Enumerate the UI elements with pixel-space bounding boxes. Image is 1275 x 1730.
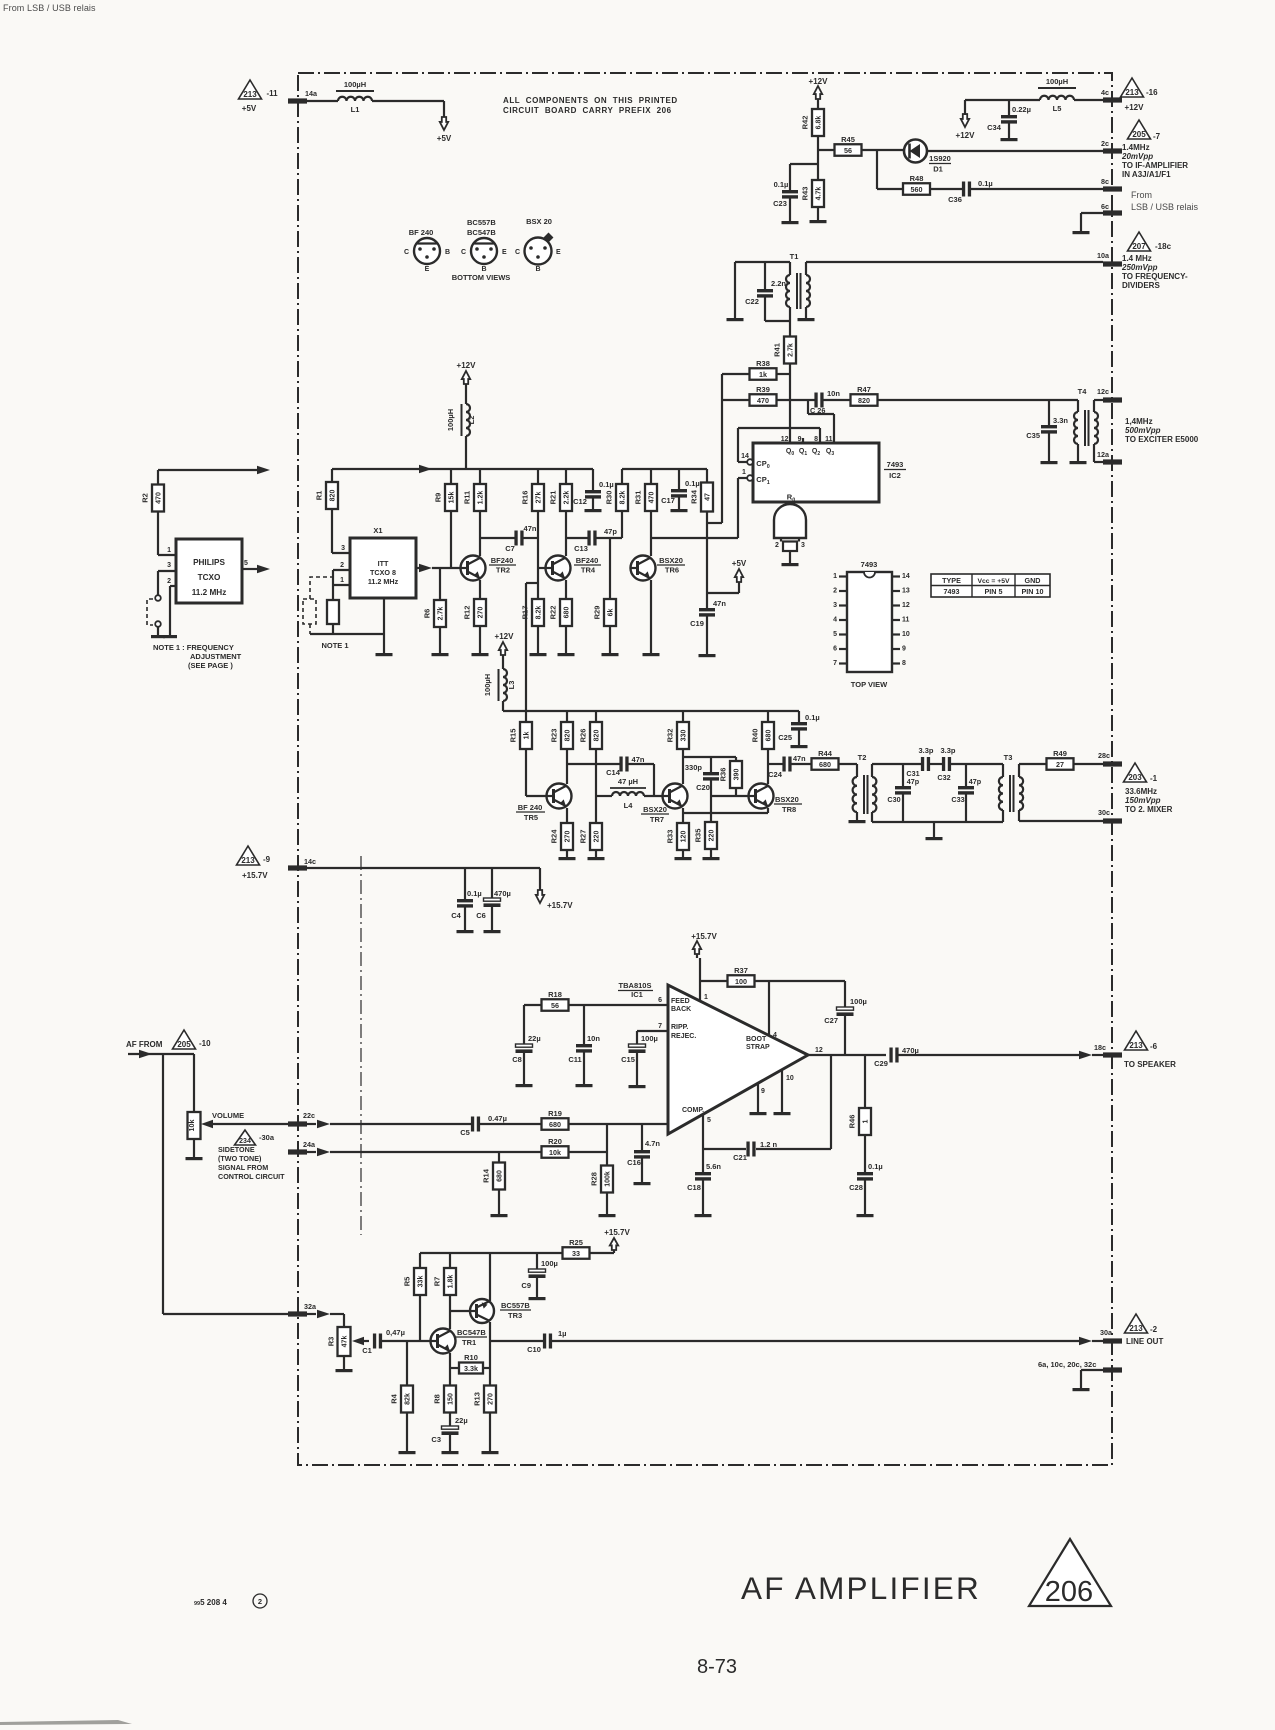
capacitor C30 47p xyxy=(902,764,904,786)
svg-text:213: 213 xyxy=(1125,88,1139,97)
svg-text:FEED: FEED xyxy=(671,998,690,1005)
svg-text:+12V: +12V xyxy=(956,131,976,140)
svg-text:IN A3J/A1/F1: IN A3J/A1/F1 xyxy=(1122,170,1171,179)
svg-text:330p: 330p xyxy=(685,763,703,772)
svg-text:680: 680 xyxy=(564,607,571,619)
resistor R6 2.7k xyxy=(439,568,441,600)
CP0 feedback loop wire pin8 to pin14 xyxy=(819,428,821,443)
filter bottom rail with center ground xyxy=(872,821,1003,823)
pin 10a xyxy=(1103,261,1122,266)
svg-text:27: 27 xyxy=(1056,760,1064,769)
svg-text:2.7k: 2.7k xyxy=(438,607,445,621)
resistor R13 270 xyxy=(489,1341,491,1385)
pin 12a xyxy=(1103,459,1122,464)
svg-text:6: 6 xyxy=(833,646,837,653)
svg-text:ALL COMPONENTS ON THIS PRI: ALL COMPONENTS ON THIS PRINTED xyxy=(503,96,678,105)
capacitor C26 10n (series) xyxy=(814,393,817,408)
svg-text:28c: 28c xyxy=(1098,751,1110,760)
svg-text:C15: C15 xyxy=(621,1055,635,1064)
pin 7 ripple rejection with C15 100u xyxy=(637,1030,667,1032)
pin 8c xyxy=(1103,186,1122,191)
resistor R35 220 xyxy=(710,813,712,822)
arrow to pin 18c xyxy=(1079,1051,1092,1059)
svg-text:+15.7V: +15.7V xyxy=(691,932,717,941)
capacitor C5 0.47u (series) xyxy=(471,1117,474,1132)
TCXO pin 2 to ground xyxy=(170,585,176,587)
capacitor C33 47p xyxy=(965,764,967,786)
svg-text:X1: X1 xyxy=(373,526,382,535)
wire T4 secondary to pin 12a xyxy=(1094,461,1103,463)
svg-text:TR3: TR3 xyxy=(508,1311,522,1320)
resistor R15 1k xyxy=(525,711,527,722)
capacitor C17 0.1u with ground xyxy=(678,469,680,489)
svg-text:680: 680 xyxy=(766,730,773,742)
svg-text:1: 1 xyxy=(167,547,171,554)
wire down to 32a net xyxy=(162,1054,164,1314)
svg-text:820: 820 xyxy=(858,396,870,405)
svg-text:4.7k: 4.7k xyxy=(816,187,823,201)
svg-text:C36: C36 xyxy=(948,195,962,204)
capacitor C24 47n (series) xyxy=(768,763,783,765)
svg-text:+12V: +12V xyxy=(809,77,829,86)
TR8 base wire xyxy=(711,795,749,797)
svg-text:TR1: TR1 xyxy=(462,1338,476,1347)
svg-text:22µ: 22µ xyxy=(528,1034,541,1043)
R3 wiper arrow from C1 xyxy=(352,1337,364,1345)
wire +12V arrow to C34 node to L5 xyxy=(965,99,1040,101)
wire R45 to D1 node xyxy=(861,149,904,151)
svg-text:R20: R20 xyxy=(548,1137,562,1146)
capacitor C13 47p (series) xyxy=(566,537,588,539)
svg-text:250mVpp: 250mVpp xyxy=(1121,263,1158,272)
svg-text:1: 1 xyxy=(863,1119,870,1123)
svg-text:C10: C10 xyxy=(527,1345,541,1354)
svg-text:L4: L4 xyxy=(624,801,634,810)
svg-text:BOTTOM VIEWS: BOTTOM VIEWS xyxy=(452,273,511,282)
svg-text:SIDETONE: SIDETONE xyxy=(218,1145,255,1154)
svg-text:+5V: +5V xyxy=(242,104,257,113)
pin 30a xyxy=(1103,1338,1122,1343)
svg-text:47: 47 xyxy=(705,493,712,501)
capacitor C21 1.2n (series) xyxy=(746,1142,749,1157)
capacitor C8 22u (elco) xyxy=(523,1005,525,1044)
svg-text:R30: R30 xyxy=(605,491,614,505)
svg-text:R35: R35 xyxy=(694,829,703,843)
transistor TR3 BC557B (PNP) xyxy=(470,1299,494,1323)
resistor R23 820 xyxy=(566,711,568,722)
resistor R14 680 xyxy=(498,1152,500,1162)
capacitor C32 3.3p (series) xyxy=(930,763,943,765)
svg-text:B: B xyxy=(535,266,540,273)
ground below R4 xyxy=(399,1451,416,1454)
svg-text:R25: R25 xyxy=(569,1238,583,1247)
svg-text:8-73: 8-73 xyxy=(697,1656,737,1678)
wire C26 node to IC2 pin 11 xyxy=(807,400,809,414)
svg-text:27k: 27k xyxy=(536,492,543,504)
transistor TR4 BF240 xyxy=(546,556,571,581)
svg-text:STRAP: STRAP xyxy=(746,1044,770,1051)
transistor TR5 BF240 xyxy=(547,784,572,809)
svg-text:LINE OUT: LINE OUT xyxy=(1126,1337,1163,1346)
resistor R8 150 xyxy=(444,1386,456,1413)
svg-text:ADJUSTMENT: ADJUSTMENT xyxy=(190,652,242,661)
+15.7V supply arrow (down) xyxy=(536,890,544,903)
svg-text:203: 203 xyxy=(1128,773,1142,782)
resistor R30 8.2k xyxy=(621,469,623,484)
svg-text:0.1µ: 0.1µ xyxy=(685,479,700,488)
svg-text:22µ: 22µ xyxy=(455,1416,468,1425)
svg-text:0.1µ: 0.1µ xyxy=(599,480,614,489)
svg-text:LSB / USB relais: LSB / USB relais xyxy=(1131,202,1199,212)
svg-text:820: 820 xyxy=(330,490,337,502)
TR1 emitter to R8 xyxy=(449,1353,451,1385)
svg-text:R39: R39 xyxy=(756,385,770,394)
svg-text:L2: L2 xyxy=(467,416,476,425)
svg-text:PHILIPS: PHILIPS xyxy=(193,558,225,567)
capacitor C28 0.1u xyxy=(857,1172,873,1175)
svg-text:1: 1 xyxy=(742,469,746,476)
svg-text:1S920: 1S920 xyxy=(929,154,951,163)
svg-text:From LSB / USB relais: From LSB / USB relais xyxy=(3,3,96,13)
ground below R14 xyxy=(491,1214,508,1217)
svg-text:33: 33 xyxy=(572,1249,580,1258)
ground below T4 primary xyxy=(1070,461,1087,464)
capacitor C9 100u (elco) xyxy=(536,1253,538,1269)
IC2 pin 9 stub Q1 xyxy=(802,438,804,443)
svg-text:R18: R18 xyxy=(548,990,562,999)
svg-text:3.3p: 3.3p xyxy=(940,746,955,755)
svg-text:4: 4 xyxy=(833,617,837,624)
wire pin1 node to R37 xyxy=(700,980,728,982)
+12V rail segment TR6 xyxy=(622,468,707,470)
supply rail 15.7V lineout xyxy=(420,1252,562,1254)
svg-text:3: 3 xyxy=(167,562,171,569)
svg-text:R3: R3 xyxy=(327,1337,336,1347)
svg-text:5: 5 xyxy=(707,1117,711,1124)
svg-text:-6: -6 xyxy=(1150,1042,1158,1051)
svg-text:47n: 47n xyxy=(713,599,726,608)
svg-text:R34: R34 xyxy=(690,489,699,504)
resistor R17 8.2k xyxy=(537,568,539,599)
svg-text:1,4MHz: 1,4MHz xyxy=(1125,417,1153,426)
svg-text:390: 390 xyxy=(734,769,741,781)
TR3 emitter to supply rail xyxy=(489,1253,491,1301)
svg-text:R43: R43 xyxy=(801,187,810,201)
connector triangle 213 -2 line out xyxy=(1125,1314,1148,1333)
svg-text:BC547B: BC547B xyxy=(457,1328,486,1337)
svg-text:2.7k: 2.7k xyxy=(788,343,795,357)
svg-text:1.2 n: 1.2 n xyxy=(760,1140,778,1149)
svg-text:E: E xyxy=(425,266,430,273)
wire D1 to pin 2c xyxy=(927,150,1103,152)
TR3 collector to output line xyxy=(489,1322,491,1341)
wire T3 secondary to pin 30c xyxy=(1019,820,1103,822)
wire C36 to pin 8c xyxy=(971,188,1103,190)
svg-text:234: 234 xyxy=(239,1138,251,1145)
svg-text:470µ: 470µ xyxy=(902,1046,919,1055)
svg-text:207: 207 xyxy=(1132,242,1146,251)
svg-text:BC557B: BC557B xyxy=(501,1301,530,1310)
svg-text:R29: R29 xyxy=(593,606,602,620)
svg-text:1k: 1k xyxy=(524,732,531,740)
svg-text:47p: 47p xyxy=(907,777,920,786)
sidetone triangle 234 -30a xyxy=(235,1130,256,1145)
svg-text:220: 220 xyxy=(594,831,601,843)
svg-text:10k: 10k xyxy=(549,1148,561,1157)
transistor TR7 BSX20 xyxy=(663,784,688,809)
svg-text:8c: 8c xyxy=(1101,177,1109,186)
transistor TR6 BSX20 xyxy=(631,556,656,581)
svg-text:T1: T1 xyxy=(790,252,799,261)
svg-text:C23: C23 xyxy=(773,199,787,208)
svg-text:11: 11 xyxy=(825,436,833,443)
TCXO pin 3 to trimmer xyxy=(158,570,176,572)
wire T3 to R49 xyxy=(1019,763,1047,765)
svg-text:6: 6 xyxy=(658,997,662,1004)
resistor R43 4.7k xyxy=(812,180,824,207)
+12V supply arrow (down) near C34 xyxy=(961,114,969,127)
svg-text:Vcc = +5V: Vcc = +5V xyxy=(977,578,1010,585)
svg-text:-30a: -30a xyxy=(259,1133,275,1142)
svg-text:C11: C11 xyxy=(568,1055,581,1064)
ground below R0 gate xyxy=(782,563,799,566)
ground below C3 xyxy=(442,1451,459,1454)
lower +12V rail xyxy=(503,710,799,712)
svg-text:R19: R19 xyxy=(548,1109,562,1118)
pin 4 bootstrap wire xyxy=(768,981,770,1035)
svg-text:TBA810S: TBA810S xyxy=(619,981,652,990)
IC2 7493 counter box xyxy=(753,443,879,502)
svg-text:E: E xyxy=(556,249,561,256)
svg-text:56: 56 xyxy=(551,1001,559,1010)
pin 5 comp xyxy=(702,1114,704,1149)
pin 14c xyxy=(288,865,307,870)
svg-text:100µ: 100µ xyxy=(641,1034,658,1043)
ground below C23 xyxy=(782,221,799,224)
svg-text:14a: 14a xyxy=(305,89,318,98)
connector triangle 203 -1 to 2.mixer xyxy=(1124,763,1147,782)
svg-text:22c: 22c xyxy=(303,1111,315,1120)
CP1 input wire from TR6 collector xyxy=(651,537,738,539)
svg-text:R44: R44 xyxy=(818,749,833,758)
svg-text:R28: R28 xyxy=(590,1172,599,1186)
svg-text:10n: 10n xyxy=(827,389,840,398)
svg-text:(TWO TONE): (TWO TONE) xyxy=(218,1154,262,1163)
svg-text:R22: R22 xyxy=(549,606,558,620)
svg-text:9: 9 xyxy=(761,1088,765,1095)
svg-text:C1: C1 xyxy=(362,1346,372,1355)
capacitor C3 22u (elco) xyxy=(442,1426,459,1429)
pin 24a xyxy=(288,1149,307,1154)
resistor R1 820 xyxy=(331,469,333,482)
resistor R27 220 xyxy=(595,796,597,823)
svg-text:+15.7V: +15.7V xyxy=(242,871,268,880)
wire R42 to node xyxy=(817,135,819,180)
svg-text:2.2n: 2.2n xyxy=(771,279,786,288)
svg-text:150: 150 xyxy=(448,1393,455,1405)
svg-text:20mVpp: 20mVpp xyxy=(1121,152,1153,161)
svg-text:8.2k: 8.2k xyxy=(620,491,627,505)
wire R15 to TR5 base xyxy=(526,795,547,797)
resistor R39 470 xyxy=(722,399,749,401)
resistor R46 1 xyxy=(864,1055,866,1108)
svg-text:C24: C24 xyxy=(768,770,783,779)
TR5 emitter to R24 xyxy=(566,808,568,823)
svg-text:10: 10 xyxy=(786,1075,794,1082)
ground below R3 xyxy=(336,1369,353,1372)
svg-text:15k: 15k xyxy=(449,492,456,504)
svg-text:1.4MHz: 1.4MHz xyxy=(1122,143,1150,152)
svg-text:3: 3 xyxy=(341,545,345,552)
wire L1 to +5V arrow xyxy=(372,100,444,102)
svg-text:L5: L5 xyxy=(1053,104,1062,113)
svg-text:470: 470 xyxy=(156,492,163,504)
svg-text:4.7n: 4.7n xyxy=(645,1139,660,1148)
wire down to volume pot xyxy=(193,1054,195,1112)
svg-text:+12V: +12V xyxy=(1125,103,1145,112)
svg-text:0.1µ: 0.1µ xyxy=(467,889,482,898)
svg-text:4: 4 xyxy=(773,1032,777,1039)
svg-text:+15.7V: +15.7V xyxy=(604,1228,630,1237)
svg-text:213: 213 xyxy=(243,90,257,99)
resistor R2 470 xyxy=(157,470,159,484)
svg-text:2: 2 xyxy=(775,542,779,549)
resistor R49 27 xyxy=(1047,758,1074,770)
transistor TR2 BF240 xyxy=(461,556,486,581)
wire 14c to +15.7V arrow xyxy=(306,867,540,869)
svg-text:1: 1 xyxy=(704,994,708,1001)
svg-text:4c: 4c xyxy=(1101,88,1109,97)
diode D1 1S920 xyxy=(904,140,927,163)
svg-text:C27: C27 xyxy=(824,1016,838,1025)
wire T4 secondary to pin 12c xyxy=(1094,399,1103,401)
svg-text:C: C xyxy=(515,249,520,256)
sheet triangle 206 xyxy=(1029,1539,1111,1606)
arrow to pin 30a xyxy=(1079,1337,1092,1345)
filter top rail xyxy=(872,763,921,765)
svg-text:ITT: ITT xyxy=(378,559,389,568)
svg-text:+12V: +12V xyxy=(495,632,515,641)
svg-text:R14: R14 xyxy=(482,1168,491,1183)
X1 pin 4 output arrow to TR2 base xyxy=(416,567,420,569)
volume wiper arrow xyxy=(201,1120,213,1128)
svg-text:B: B xyxy=(481,266,486,273)
svg-text:TYPE: TYPE xyxy=(942,576,961,585)
svg-text:PIN 10: PIN 10 xyxy=(1022,587,1044,596)
svg-text:100µH: 100µH xyxy=(483,674,492,696)
svg-text:30a: 30a xyxy=(1100,1328,1113,1337)
TR8 emitter xyxy=(767,808,769,813)
svg-text:680: 680 xyxy=(819,760,831,769)
resistor R37 100 xyxy=(728,975,755,987)
ground below R12 xyxy=(472,653,489,656)
svg-text:C33: C33 xyxy=(951,795,964,804)
capacitor C20 330p xyxy=(710,757,712,772)
resistor R19 680 xyxy=(542,1118,569,1130)
svg-text:TCXO 8: TCXO 8 xyxy=(370,568,396,577)
svg-text:+5V: +5V xyxy=(437,134,452,143)
ground below C35 xyxy=(1041,461,1058,464)
resistor R21 2.2k xyxy=(565,469,567,484)
32a wire from AF input net xyxy=(163,1313,288,1315)
resistor R16 27k xyxy=(537,469,539,484)
R0 reset gate of IC2 xyxy=(774,504,806,538)
arrow into board 24a xyxy=(306,1151,316,1153)
svg-text:2c: 2c xyxy=(1101,139,1109,148)
resistor R20 10k xyxy=(542,1146,569,1158)
svg-text:R27: R27 xyxy=(579,830,588,844)
feedback wire from R38/R39 to R34 node xyxy=(721,374,723,523)
svg-text:C35: C35 xyxy=(1026,431,1040,440)
potentiometer R3 47k xyxy=(343,1314,345,1327)
svg-text:R9: R9 xyxy=(434,493,443,503)
svg-text:C19: C19 xyxy=(690,619,704,628)
svg-text:BSX20: BSX20 xyxy=(643,805,667,814)
svg-text:1: 1 xyxy=(340,577,344,584)
svg-text:R46: R46 xyxy=(848,1115,857,1129)
svg-text:3: 3 xyxy=(833,602,837,609)
ground below R33 xyxy=(675,857,692,860)
svg-text:TR8: TR8 xyxy=(782,805,796,814)
TR6 emitter to ground xyxy=(650,580,652,653)
resistor R5 33k xyxy=(419,1253,421,1268)
svg-text:R32: R32 xyxy=(666,729,675,743)
svg-text:1.8k: 1.8k xyxy=(448,1275,455,1289)
svg-text:100k: 100k xyxy=(605,1171,612,1187)
svg-text:3.3n: 3.3n xyxy=(1053,416,1068,425)
svg-text:TO IF-AMPLIFIER: TO IF-AMPLIFIER xyxy=(1122,161,1188,170)
svg-text:R8: R8 xyxy=(433,1394,442,1404)
hook R34 node to feedback wire xyxy=(707,522,722,524)
svg-text:470: 470 xyxy=(757,396,769,405)
inductor L1 100uH xyxy=(338,97,372,101)
svg-text:-16: -16 xyxy=(1146,88,1158,97)
connector triangle 213 -9 +15.7V xyxy=(237,846,260,865)
svg-text:8: 8 xyxy=(814,436,818,443)
capacitor C12 0.1u with ground xyxy=(592,469,594,490)
svg-text:R24: R24 xyxy=(550,829,559,844)
ground below R28 xyxy=(599,1214,616,1217)
resistor R36 390 xyxy=(735,757,737,761)
pin 18c xyxy=(1103,1052,1122,1057)
svg-text:T2: T2 xyxy=(858,753,867,762)
svg-text:12: 12 xyxy=(781,436,789,443)
wire R16 to TR4 base xyxy=(538,567,546,569)
ground below C25 xyxy=(791,745,808,748)
svg-text:205: 205 xyxy=(177,1040,191,1049)
PHILIPS TCXO block xyxy=(176,539,242,603)
svg-text:6k: 6k xyxy=(608,609,615,617)
svg-text:2: 2 xyxy=(340,562,344,569)
capacitor C11 10n xyxy=(583,1005,585,1044)
svg-text:12c: 12c xyxy=(1097,387,1109,396)
svg-text:BSX20: BSX20 xyxy=(775,795,799,804)
svg-text:7: 7 xyxy=(658,1023,662,1030)
svg-text:TR6: TR6 xyxy=(665,566,679,575)
trimmer dashed link xyxy=(147,599,153,625)
svg-text:VOLUME: VOLUME xyxy=(212,1111,244,1120)
svg-text:TO EXCITER E5000: TO EXCITER E5000 xyxy=(1125,435,1199,444)
svg-text:C29: C29 xyxy=(874,1059,888,1068)
ground below C16 xyxy=(634,1182,651,1185)
svg-text:CONTROL CIRCUIT: CONTROL CIRCUIT xyxy=(218,1172,285,1181)
TR7 collector node line to R36/C20 xyxy=(683,756,736,758)
pin 4c xyxy=(1103,97,1122,102)
ground below TR6 xyxy=(643,653,660,656)
svg-text:RIPP.: RIPP. xyxy=(671,1024,688,1031)
hook from R16/R17 node down to lower rail xyxy=(526,582,538,584)
resistor R34 47 xyxy=(706,469,708,482)
